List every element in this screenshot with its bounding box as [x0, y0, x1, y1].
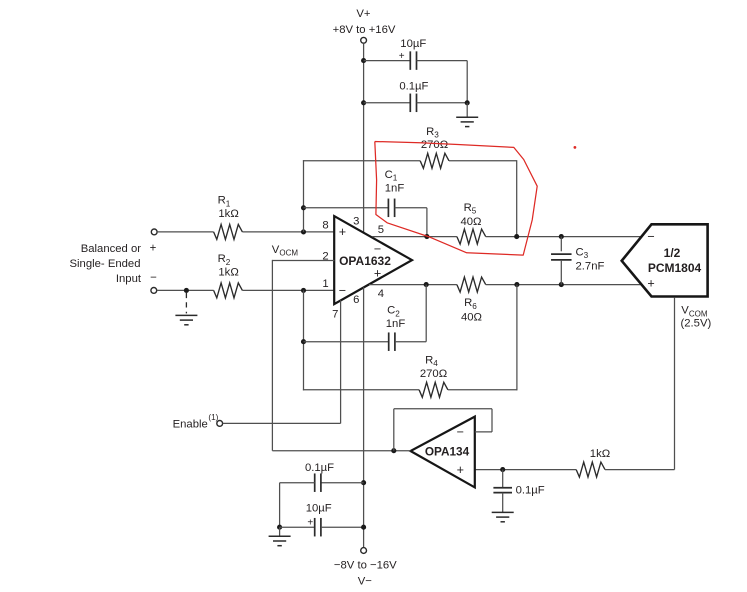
svg-text:+8V to +16V: +8V to +16V — [333, 24, 396, 36]
svg-text:C3: C3 — [576, 246, 589, 260]
svg-text:+: + — [457, 463, 464, 477]
wire bottom bypass left vertical — [279, 483, 281, 528]
svg-text:PCM1804: PCM1804 — [648, 261, 702, 275]
svg-text:0.1µF: 0.1µF — [305, 462, 334, 474]
resistor R5 40 — [457, 229, 486, 244]
resistor R3 270 — [420, 153, 449, 168]
svg-text:1/2: 1/2 — [664, 246, 681, 260]
wire R3 right vertical — [516, 160, 518, 236]
svg-text:Enable: Enable — [173, 419, 208, 431]
node input+ terminal — [151, 229, 157, 235]
ground VCOM filter — [492, 511, 514, 513]
svg-text:V+: V+ — [356, 8, 371, 20]
wire C2 row right — [395, 341, 426, 343]
svg-text:−: − — [647, 230, 654, 244]
junction pin8 node / feedback column — [301, 229, 306, 234]
wire right bypass vertical — [466, 61, 468, 103]
wire 0.1uF bottom row left — [280, 482, 315, 484]
junction C1 / pin5 row — [424, 234, 429, 239]
svg-text:+: + — [307, 517, 313, 528]
wire pin2 VOCM row — [272, 260, 334, 262]
wire 0.1uF stem — [502, 470, 504, 488]
node Enable terminal — [217, 421, 223, 427]
junction C3 / pin5 row — [559, 234, 564, 239]
wire OPA134 feedback left vertical — [393, 409, 395, 451]
capacitor C3 2.7nF — [560, 237, 562, 252]
node V+ supply terminal — [361, 37, 367, 43]
junction C3 / pin4 row — [559, 282, 564, 287]
ADC U2 1/2 PCM1804 body — [622, 224, 708, 296]
svg-text:+: + — [339, 225, 346, 239]
svg-text:7: 7 — [332, 309, 338, 321]
svg-text:2.7nF: 2.7nF — [576, 261, 605, 273]
wire V- rail vertical — [363, 287, 365, 547]
resistor R1 1k — [214, 224, 243, 239]
svg-text:1kΩ: 1kΩ — [218, 266, 238, 278]
resistor R7 1k (VCOM) — [576, 462, 605, 477]
wire C1 right vertical — [426, 208, 428, 237]
wire R2 to pin1 — [242, 289, 334, 291]
wire R4 row left — [303, 389, 419, 391]
wire C2 right vertical — [425, 285, 427, 342]
svg-text:1: 1 — [322, 278, 328, 290]
svg-text:−: − — [150, 272, 157, 284]
svg-text:C1: C1 — [385, 169, 398, 183]
svg-text:10µF: 10µF — [306, 503, 332, 515]
svg-text:4: 4 — [378, 288, 384, 300]
wire VOCM column — [271, 260, 273, 451]
wire 10uF row left — [364, 60, 411, 62]
junction V- rail / 10uF row — [361, 525, 366, 530]
junction V+ rail / 10uF row — [361, 58, 366, 63]
svg-text:V−: V− — [358, 576, 373, 588]
wire OPA134 feedback top — [394, 408, 492, 410]
junction OPA134 input / 0.1uF tap — [500, 467, 505, 472]
wire R4 row right — [448, 389, 517, 391]
wire pin5 output row right — [486, 236, 642, 238]
wire 0.1uF bottom row right — [321, 482, 364, 484]
wire pin4 output row right — [486, 284, 642, 286]
wire pin4 output row left — [369, 284, 457, 286]
junction V+ rail / 0.1uF row — [361, 100, 366, 105]
junction pin1 node / feedback column — [301, 288, 306, 293]
capacitor 10uF (V- bypass) — [314, 518, 316, 537]
wire 0.1uF row left — [364, 102, 411, 104]
annotation red dot — [574, 146, 577, 149]
svg-text:R3: R3 — [426, 126, 439, 140]
ground input (dashed) — [175, 314, 197, 316]
wire input+ to R1 — [157, 231, 213, 233]
svg-text:6: 6 — [353, 294, 359, 306]
svg-text:40Ω: 40Ω — [461, 312, 482, 324]
wire C1 row left — [304, 207, 389, 209]
ground top bypass — [456, 116, 478, 118]
svg-text:R5: R5 — [464, 202, 477, 216]
svg-text:Balanced or: Balanced or — [81, 243, 142, 255]
junction OPA134 feedback tap — [391, 448, 396, 453]
wire OPA134 feedback right vertical — [491, 409, 493, 432]
junction R3 feedback / pin5 row — [514, 234, 519, 239]
capacitor C2 1nF — [388, 332, 390, 351]
wire R4 right vertical — [516, 285, 518, 391]
op-amp U3 OPA134 body — [411, 417, 475, 488]
wire ground stem top — [466, 103, 468, 117]
wire VCOM column — [674, 298, 676, 470]
wire 1k to VCOM column — [605, 469, 675, 471]
svg-text:R1: R1 — [218, 195, 231, 209]
svg-text:−8V to −16V: −8V to −16V — [334, 560, 397, 572]
wire OPA134 plus input row — [475, 469, 576, 471]
svg-text:−: − — [374, 242, 381, 256]
junction C2 / pin4 row — [424, 282, 429, 287]
wire input- to ground tap — [157, 289, 214, 291]
junction R4 feedback / pin4 row — [514, 282, 519, 287]
svg-text:5: 5 — [378, 224, 384, 236]
resistor R6 40 — [457, 277, 486, 292]
ground bottom bypass — [269, 535, 291, 537]
svg-text:R6: R6 — [464, 297, 477, 311]
capacitor 0.1uF (VCOM filter) — [493, 487, 512, 489]
wire R3 row left — [303, 160, 420, 162]
svg-text:40Ω: 40Ω — [460, 216, 481, 228]
svg-text:VOCM: VOCM — [272, 244, 299, 258]
wire R1 to pin8 — [242, 231, 334, 233]
svg-text:R2: R2 — [218, 253, 231, 267]
svg-text:270Ω: 270Ω — [421, 139, 448, 151]
node V- supply terminal — [361, 548, 367, 554]
junction C1 row tap — [301, 205, 306, 210]
wire 10uF row right — [417, 60, 468, 62]
wire V+ rail vertical — [363, 43, 365, 234]
node input- terminal — [151, 288, 157, 294]
resistor R2 1k — [214, 283, 243, 298]
svg-text:Input: Input — [116, 273, 142, 285]
svg-text:1nF: 1nF — [385, 182, 405, 194]
junction bypass ground node — [465, 100, 470, 105]
wire 0.1uF row right — [417, 102, 468, 104]
svg-text:+: + — [647, 277, 654, 291]
svg-text:OPA134: OPA134 — [425, 444, 470, 458]
capacitor 0.1uF (V+ bypass) — [409, 94, 411, 113]
svg-text:R4: R4 — [425, 355, 438, 369]
svg-text:1nF: 1nF — [386, 318, 406, 330]
wire OPA134 output row — [272, 450, 410, 452]
wire 0.1uF to ground — [502, 493, 504, 513]
svg-text:+: + — [374, 267, 381, 281]
wire ground stem bottom — [279, 527, 281, 536]
svg-text:(2.5V): (2.5V) — [681, 318, 712, 330]
wire 10uF bottom row left — [280, 526, 315, 528]
wire Enable row — [223, 422, 341, 424]
wire pin5 output row left — [372, 236, 457, 238]
resistor R4 270 — [419, 382, 448, 397]
wire feedback column top (pin8 node) — [303, 160, 305, 232]
svg-text:VCOM: VCOM — [681, 305, 708, 319]
junction bottom ground node — [277, 525, 282, 530]
junction V- rail / 0.1uF row — [361, 480, 366, 485]
svg-text:270Ω: 270Ω — [420, 368, 447, 380]
svg-text:+: + — [150, 243, 157, 255]
svg-text:OPA1632: OPA1632 — [339, 254, 391, 268]
wire OPA134 feedback to - input — [475, 431, 492, 433]
svg-text:(1): (1) — [208, 413, 218, 422]
svg-text:10µF: 10µF — [400, 38, 426, 50]
svg-text:0.1µF: 0.1µF — [516, 485, 545, 497]
svg-text:3: 3 — [353, 216, 359, 228]
wire 10uF bottom row right — [321, 526, 364, 528]
wire dashed ground drop — [185, 293, 187, 314]
capacitor 10uF (V+ bypass) — [409, 51, 411, 70]
svg-text:−: − — [339, 283, 346, 297]
annotation red loop around R3/C1/R5 — [375, 142, 537, 256]
svg-text:0.1µF: 0.1µF — [399, 80, 428, 92]
capacitor C1 1nF — [387, 199, 389, 218]
svg-text:Single- Ended: Single- Ended — [70, 258, 141, 270]
svg-text:8: 8 — [322, 220, 328, 232]
svg-text:−: − — [457, 425, 464, 439]
svg-text:+: + — [399, 51, 405, 62]
junction C2 row tap — [301, 339, 306, 344]
junction input ground tap — [184, 288, 189, 293]
capacitor 0.1uF (V- bypass) — [314, 473, 316, 492]
wire C1 row right — [395, 207, 427, 209]
svg-text:1kΩ: 1kΩ — [590, 448, 610, 460]
svg-text:C2: C2 — [387, 305, 400, 319]
wire pin7 enable column — [340, 300, 342, 423]
op-amp U1 OPA1632 body — [334, 216, 412, 304]
wire C2 row left — [304, 341, 389, 343]
wire feedback column bottom (pin1 node) — [303, 290, 305, 390]
wire R3 row right — [449, 160, 517, 162]
svg-text:1kΩ: 1kΩ — [218, 208, 238, 220]
